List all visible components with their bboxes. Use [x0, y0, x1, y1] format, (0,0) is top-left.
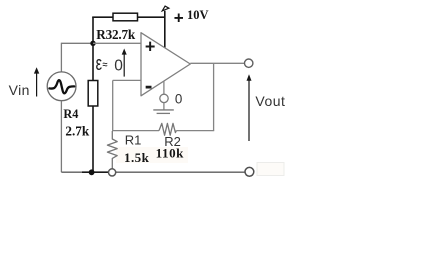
wire + input: [93, 42, 141, 44]
svg-text:2.7k: 2.7k: [65, 123, 89, 138]
svg-text:0: 0: [175, 91, 182, 106]
svg-text:ε: ε: [96, 53, 102, 75]
ground: [153, 109, 174, 111]
wire feedback left segment: [113, 130, 159, 132]
node 0 circle: [160, 94, 168, 102]
svg-text:+: +: [174, 9, 184, 28]
wire bottom rail: [61, 171, 245, 173]
svg-text:1.5k: 1.5k: [124, 150, 150, 165]
wire ground stub from op-amp: [163, 82, 165, 95]
wire R4 to bottom rail: [92, 106, 94, 172]
wire Vin vertical down to source: [60, 43, 62, 72]
junction dot bottom: [89, 169, 95, 175]
terminal R1 bottom: [109, 169, 116, 176]
arrow Vin: [36, 72, 38, 97]
resistor R1 (zigzag): [107, 131, 117, 169]
node A junction dot: [90, 41, 95, 46]
svg-text:0: 0: [114, 58, 123, 75]
wire below source to bottom rail: [60, 101, 62, 173]
svg-text:-: -: [145, 72, 153, 98]
wire ground vertical: [163, 103, 165, 110]
arrow epsilon: [123, 53, 125, 77]
wire top horizontal right of R3: [138, 16, 165, 18]
svg-text:10V: 10V: [187, 8, 209, 22]
wire top-left vertical (node A up to R3): [92, 17, 94, 44]
op-amp U1: [141, 33, 190, 96]
terminal output top: [245, 59, 253, 67]
smudge background right of bottom terminal: [257, 163, 284, 176]
resistor R3 (body): [113, 13, 138, 21]
smudge background near 1.5k/110k: [116, 147, 188, 163]
svg-text:110k: 110k: [156, 146, 185, 161]
wire feedback right segment: [176, 130, 214, 132]
wire node A down to R4: [92, 43, 94, 80]
svg-text:Vout: Vout: [255, 93, 285, 109]
wire - input horizontal: [113, 79, 141, 81]
wire bottom rail dark segment near junction: [82, 171, 109, 173]
svg-text:R4: R4: [63, 107, 78, 121]
resistor R2 (zigzag): [159, 123, 176, 135]
wire +10V supply vertical: [164, 11, 166, 48]
wire Vin top horizontal to node A: [61, 42, 93, 44]
svg-text:≈: ≈: [103, 59, 108, 69]
wire top horizontal left of R3: [92, 16, 113, 18]
arrow Vout: [248, 78, 250, 141]
svg-text:R1: R1: [125, 133, 142, 148]
svg-text:+: +: [145, 36, 156, 56]
wire - input vertical down: [112, 80, 114, 131]
wire output horizontal: [190, 62, 244, 64]
resistor R4 (body): [88, 81, 98, 107]
wire output right vertical: [213, 63, 215, 130]
svg-text:R32.7k: R32.7k: [96, 27, 136, 42]
power +10V terminal symbol: [162, 6, 169, 11]
terminal bottom right: [245, 167, 254, 176]
svg-text:Vin: Vin: [9, 82, 30, 98]
source Vin (AC): [47, 72, 76, 101]
